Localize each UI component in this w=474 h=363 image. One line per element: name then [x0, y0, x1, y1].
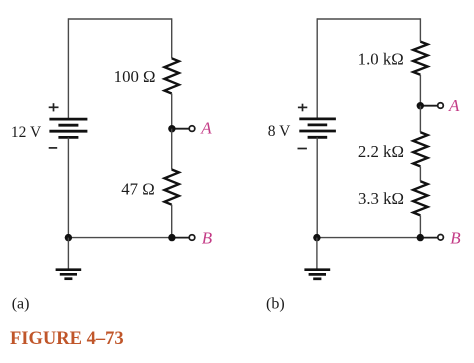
wire node A to resistor 2.2kΩ	[419, 106, 421, 133]
resistor 1.0 kΩ	[413, 42, 427, 75]
junction ground node (a)	[65, 234, 72, 241]
wire resistor 2.2kΩ to resistor 3.3kΩ	[419, 166, 421, 181]
wire resistor 100Ω to node A	[171, 94, 173, 129]
ground (b)	[304, 270, 330, 279]
label − (b)	[298, 148, 307, 150]
svg-text:B: B	[202, 229, 213, 248]
ground (a)	[56, 270, 82, 279]
resistor 3.3 kΩ	[413, 181, 427, 215]
wire stub node A (a)	[172, 128, 190, 130]
junction node A (b)	[417, 102, 424, 109]
label + (b)	[298, 104, 307, 112]
wire right rail (a) top	[171, 18, 173, 58]
svg-text:1.0 kΩ: 1.0 kΩ	[358, 49, 404, 68]
junction node B (b)	[417, 234, 424, 241]
wire stub node B (b)	[420, 237, 438, 239]
terminal B (a)	[189, 235, 195, 241]
wire left rail (b) bottom	[316, 137, 318, 237]
label + (a)	[49, 103, 59, 111]
svg-text:B: B	[450, 228, 461, 247]
wire ground stem (b)	[316, 238, 318, 270]
svg-text:3.3 kΩ: 3.3 kΩ	[358, 189, 404, 208]
junction ground node (b)	[313, 234, 320, 241]
wire right rail (b) top	[419, 18, 421, 41]
svg-text:(a): (a)	[12, 296, 30, 313]
label − (a)	[49, 147, 58, 149]
wire node A to resistor 47Ω	[171, 129, 173, 170]
resistor 2.2 kΩ	[413, 132, 427, 166]
wire left rail (a) top	[67, 18, 69, 119]
wire ground stem (a)	[67, 238, 69, 270]
resistor 100 Ω	[165, 58, 179, 93]
wire resistor 1.0kΩ to node A	[419, 75, 421, 106]
svg-text:FIGURE 4–73: FIGURE 4–73	[10, 329, 124, 349]
svg-text:A: A	[200, 118, 212, 137]
wire top (b)	[317, 18, 420, 20]
wire left rail (a) bottom	[67, 137, 69, 237]
wire left rail (b) top	[316, 18, 318, 119]
junction node B (a)	[168, 234, 175, 241]
wire resistor 47Ω to node B	[171, 205, 173, 238]
wire bottom (b)	[317, 237, 420, 239]
svg-text:47 Ω: 47 Ω	[121, 179, 154, 198]
terminal A (b)	[438, 103, 444, 109]
svg-text:(b): (b)	[266, 296, 285, 313]
svg-text:A: A	[448, 96, 460, 115]
battery 8 V	[299, 119, 336, 137]
wire stub node B (a)	[172, 237, 190, 239]
terminal B (b)	[438, 235, 444, 241]
wire bottom (a)	[68, 237, 171, 239]
terminal A (a)	[189, 126, 195, 132]
svg-text:100 Ω: 100 Ω	[114, 67, 156, 86]
junction node A (a)	[168, 125, 175, 132]
svg-text:8 V: 8 V	[268, 123, 291, 140]
wire resistor 3.3kΩ to node B	[419, 215, 421, 237]
svg-text:2.2 kΩ: 2.2 kΩ	[358, 142, 404, 161]
wire stub node A (b)	[420, 105, 438, 107]
wire top (a)	[68, 18, 171, 20]
svg-text:12 V: 12 V	[11, 124, 42, 141]
resistor 47 Ω	[165, 170, 179, 205]
battery 12 V	[49, 119, 87, 137]
